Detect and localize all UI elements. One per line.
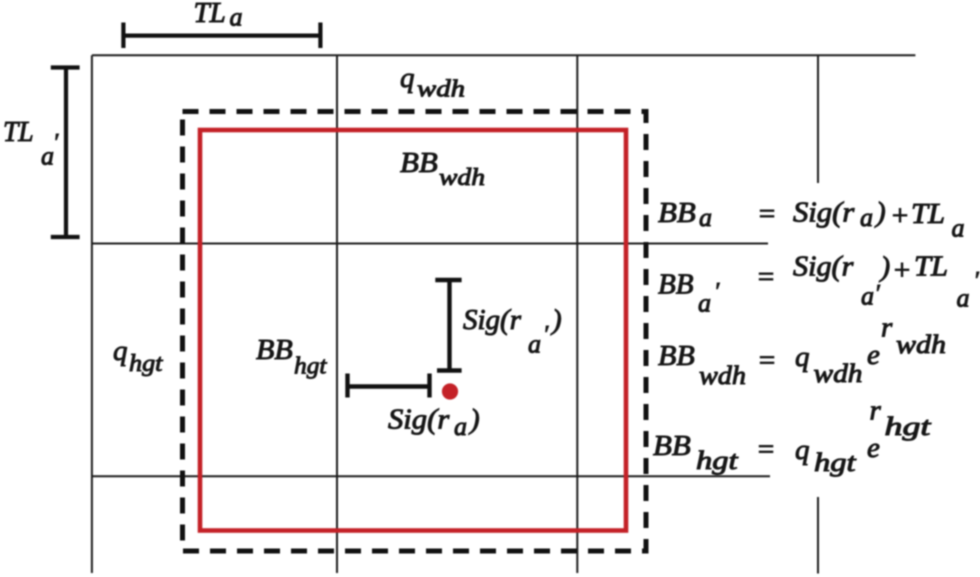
svg-text:a: a xyxy=(861,282,874,311)
svg-text:Sig(r: Sig(r xyxy=(793,251,854,282)
svg-text:=: = xyxy=(756,434,776,466)
svg-text:wdh: wdh xyxy=(814,360,863,389)
svg-text:+: + xyxy=(892,255,912,287)
svg-text:=: = xyxy=(757,345,777,377)
svg-text:=: = xyxy=(756,261,776,293)
svg-text:′: ′ xyxy=(543,322,549,348)
svg-text:′: ′ xyxy=(875,281,881,307)
svg-text:): ) xyxy=(879,251,891,283)
svg-text:′: ′ xyxy=(714,279,720,305)
svg-text:q: q xyxy=(113,335,128,367)
svg-text:q: q xyxy=(795,434,810,466)
svg-text:′: ′ xyxy=(974,268,980,294)
svg-text:a: a xyxy=(699,203,712,232)
svg-text:Sig(r: Sig(r xyxy=(388,403,450,435)
svg-text:e: e xyxy=(867,339,880,371)
svg-text:q: q xyxy=(400,62,415,94)
svg-text:): ) xyxy=(468,404,480,436)
svg-text:a: a xyxy=(528,330,541,359)
svg-text:wdh: wdh xyxy=(417,75,465,102)
svg-text:e: e xyxy=(867,432,880,464)
svg-text:Sig(r: Sig(r xyxy=(793,196,855,228)
svg-text:hgt: hgt xyxy=(294,353,328,379)
svg-text:Sig(r: Sig(r xyxy=(463,304,522,336)
svg-text:hgt: hgt xyxy=(696,447,738,475)
svg-text:hgt: hgt xyxy=(814,449,856,477)
svg-text:): ) xyxy=(874,197,886,229)
svg-text:TL: TL xyxy=(911,198,945,230)
svg-text:hgt: hgt xyxy=(129,351,163,377)
svg-text:a: a xyxy=(957,284,970,313)
svg-text:+: + xyxy=(890,200,910,232)
svg-text:BB: BB xyxy=(653,430,691,462)
svg-text:BB: BB xyxy=(256,334,293,365)
svg-text:=: = xyxy=(757,198,777,230)
svg-text:BB: BB xyxy=(658,340,695,371)
svg-text:wdh: wdh xyxy=(896,331,946,360)
svg-text:TL: TL xyxy=(3,116,34,148)
svg-text:): ) xyxy=(550,304,562,336)
svg-text:a: a xyxy=(860,203,873,232)
svg-text:wdh: wdh xyxy=(699,361,746,390)
svg-text:r: r xyxy=(870,395,882,427)
svg-text:a: a xyxy=(952,214,965,243)
svg-text:′: ′ xyxy=(53,130,59,156)
svg-text:TL: TL xyxy=(914,250,948,282)
svg-text:BB: BB xyxy=(658,269,694,301)
svg-text:hgt: hgt xyxy=(885,412,932,441)
svg-text:a: a xyxy=(454,412,467,441)
svg-text:BB: BB xyxy=(658,197,696,229)
svg-text:a: a xyxy=(698,289,711,318)
svg-text:TL: TL xyxy=(194,0,226,29)
svg-text:wdh: wdh xyxy=(439,164,485,191)
svg-text:r: r xyxy=(881,312,893,344)
svg-text:BB: BB xyxy=(400,147,438,179)
svg-text:a: a xyxy=(230,3,243,32)
svg-text:q: q xyxy=(795,341,810,373)
